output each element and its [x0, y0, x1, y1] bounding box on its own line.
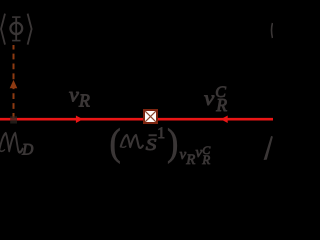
svg-text:(: (: [110, 121, 121, 164]
svg-text:D: D: [21, 142, 33, 159]
svg-text:R: R: [201, 152, 210, 167]
node: crossed box mass insertion: [144, 110, 157, 123]
svg-text:ν: ν: [69, 83, 79, 106]
svg-text:R: R: [78, 90, 90, 110]
svg-text:S: S: [146, 136, 157, 155]
arrow up: [10, 80, 18, 88]
label M_D: script M: [0, 133, 23, 152]
wire: fermion line: [0, 118, 273, 121]
arrow left nu_R^C: [221, 116, 228, 124]
svg-text:): ): [167, 121, 178, 164]
label M_D right-edge fragment: [264, 136, 273, 160]
wire: dashed vev line: [13, 45, 15, 119]
top-right bracket sliver: [272, 23, 273, 38]
svg-text:R: R: [215, 95, 227, 115]
node: vertex marker at vev junction: [10, 116, 17, 123]
svg-text:1: 1: [157, 125, 165, 142]
arrow right nu_R: [76, 116, 83, 124]
svg-text:ν: ν: [204, 86, 214, 110]
label MS: sup minus bar: [149, 134, 157, 136]
svg-text:R: R: [185, 152, 195, 168]
label MS: script M: [121, 135, 143, 148]
label vev <Phi>: [1, 14, 32, 45]
